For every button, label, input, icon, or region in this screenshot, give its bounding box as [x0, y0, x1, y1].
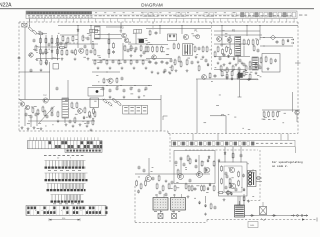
resistor R50 [226, 67, 228, 74]
diode D18 [250, 214, 254, 216]
record head H2 [171, 194, 186, 210]
choke box [53, 64, 59, 70]
junction [263, 37, 264, 38]
output arrows [291, 39, 294, 45]
wire [146, 58, 172, 60]
capacitor C3 [112, 50, 115, 54]
resistor R121 [82, 35, 84, 42]
junction [120, 85, 121, 86]
diode D7 [247, 78, 251, 80]
ground [138, 96, 141, 99]
resistor R103 [191, 185, 193, 192]
header right annotations [299, 14, 307, 17]
wire [240, 79, 256, 81]
speed block dashed bottom boundary [243, 200, 260, 202]
capacitor C65 [69, 120, 72, 124]
diode D9 [207, 159, 209, 163]
ground [175, 69, 178, 72]
junction [29, 25, 30, 26]
resistor R19 [94, 49, 96, 56]
diode D22 [231, 77, 233, 81]
wire drop to band 4 [287, 134, 289, 141]
wire [24, 27, 26, 100]
module boundary dashed vertical [211, 22, 213, 70]
wire [90, 26, 92, 45]
crystal filter [139, 39, 144, 43]
resistor R98 [156, 183, 158, 190]
wire [214, 56, 250, 58]
wire drop to band 2 [217, 134, 219, 141]
resistor R65 [116, 77, 118, 83]
resistor R10 [57, 48, 59, 55]
diode D14 [224, 151, 226, 155]
capacitor C40 [143, 169, 146, 173]
junction [263, 45, 264, 46]
resistor R24 [140, 45, 142, 52]
capacitor C36 [214, 74, 217, 78]
wire [239, 70, 241, 98]
capacitor C47 [226, 175, 229, 179]
corner wire [210, 114, 226, 133]
board outline right edge [297, 22, 299, 134]
ground [229, 62, 232, 65]
record head H1 [153, 194, 168, 210]
ground [217, 62, 220, 65]
ground [187, 195, 190, 198]
transistor TS10 [108, 78, 113, 83]
filter box [134, 29, 142, 33]
resistor R77 [84, 107, 86, 114]
resistor R83 [226, 73, 228, 80]
lower board bottom dashed edge right [207, 219, 317, 221]
capacitor C2 [90, 50, 93, 54]
diode D8 [195, 159, 197, 163]
junction with marker [18, 57, 20, 59]
diode D11 [207, 187, 209, 191]
resistor R8 [40, 48, 42, 55]
module boundary dashed left vertical [57, 43, 59, 62]
resistor R48 [255, 62, 257, 69]
resistor R17 [75, 49, 77, 56]
resistor R13 [72, 35, 74, 42]
capacitor C15 [249, 67, 252, 71]
wire [51, 35, 53, 60]
resistor R93 [201, 160, 203, 167]
wire drop to band 3 [280, 134, 282, 141]
strip drop wires [30, 137, 98, 140]
resistor R94 [213, 160, 215, 167]
resistor R52 [238, 67, 240, 74]
junction [181, 25, 182, 26]
connector J1 [22, 23, 27, 27]
head stack comb 2 [45, 173, 88, 181]
wire [29, 19, 31, 27]
lower board dashed vertical [169, 134, 171, 163]
resistor R7 [57, 37, 59, 44]
wire [92, 85, 152, 87]
resistor R105 [201, 185, 203, 192]
wire [260, 45, 293, 47]
resistor R25 [145, 46, 147, 53]
capacitor C1 [71, 50, 74, 54]
resistor R38 [186, 59, 188, 66]
resistor R59 [118, 59, 120, 65]
resistor R124 [198, 65, 200, 72]
arrow contact pair [291, 214, 308, 216]
transistor TS8 [227, 38, 232, 43]
capacitor C24 [102, 87, 105, 91]
capacitor C38 [183, 163, 186, 167]
wire [237, 196, 239, 205]
resistor R5 [45, 37, 47, 44]
connector strip CS1 lower cells [65, 149, 102, 153]
resistor R37 [180, 61, 182, 68]
wire [120, 22, 122, 33]
junction [106, 71, 107, 72]
ground [123, 96, 126, 99]
transistor TS7 [217, 37, 222, 42]
capacitor C6 [155, 31, 158, 35]
resistor R88 [263, 111, 265, 118]
resistor R62 [40, 59, 42, 65]
resistor R70 [32, 107, 34, 114]
resistor R123 [178, 56, 180, 63]
resistor R29 [147, 46, 149, 53]
lower board bottom end tick [316, 218, 318, 222]
resistor R44 [222, 48, 224, 55]
capacitor C25 [109, 89, 112, 93]
resistor R22 [108, 48, 110, 55]
resistor R16 [66, 49, 68, 56]
junction [233, 69, 234, 70]
ground [121, 67, 124, 70]
resistor R84 [231, 70, 233, 77]
resistor R73 [44, 110, 46, 117]
wire [214, 34, 262, 36]
capacitor C56 [143, 51, 146, 55]
transistor TS3 [122, 33, 127, 38]
module boundary dashed stub [152, 22, 154, 30]
wire [148, 158, 150, 175]
resistor R106 [213, 185, 215, 192]
G.B. label box [248, 222, 258, 228]
head stack comb 4 [51, 195, 84, 203]
resistor R110 [221, 178, 223, 185]
capacitor C54 [87, 37, 90, 41]
terminal band drop wires [30, 19, 295, 22]
resistor R134 [203, 185, 205, 192]
capacitor C46 [240, 154, 243, 158]
capacitor C62 [257, 49, 260, 53]
switch mark under wire [261, 219, 266, 221]
speed coil [248, 171, 257, 187]
resistor R67 [107, 101, 113, 107]
wire [37, 33, 47, 35]
ground [40, 69, 43, 72]
resistor R126 [214, 51, 216, 58]
wire [239, 196, 241, 205]
resistor R68 [112, 98, 118, 104]
annotation row [263, 118, 275, 121]
capacitor C52 [60, 42, 63, 46]
wire [181, 26, 183, 35]
diode D5 [227, 54, 229, 58]
wire [240, 147, 242, 163]
capacitor C37 [175, 161, 178, 165]
resistor R57 [94, 59, 96, 65]
ground [226, 76, 229, 79]
capacitor C49 [225, 186, 228, 190]
capacitor C66 [89, 115, 92, 119]
ground [90, 129, 93, 132]
wire [92, 59, 150, 61]
ground [109, 96, 112, 99]
resistor R32 [161, 46, 163, 53]
ground [241, 62, 244, 65]
wire [160, 95, 162, 131]
ground [204, 213, 207, 216]
wire [40, 35, 42, 60]
wire [229, 35, 231, 49]
wire [214, 69, 246, 71]
ground [197, 61, 200, 64]
ground [21, 126, 24, 129]
junction [259, 25, 260, 26]
resistor R112 [238, 180, 240, 187]
resistor R31 [156, 46, 158, 53]
wire [243, 194, 245, 205]
capacitor C73 [235, 188, 238, 192]
resistor R26 [149, 30, 151, 36]
resistor R20 [108, 38, 110, 45]
capacitor C41 [137, 190, 140, 194]
ground [65, 123, 68, 126]
switch unit S1 [123, 106, 148, 115]
resistor R3 [38, 33, 44, 35]
transformer T-IF2 [183, 44, 193, 56]
resistor R92 [189, 158, 191, 165]
resistor R55 [265, 56, 267, 63]
resistor R21 [113, 42, 115, 49]
resistor R131 [94, 111, 96, 118]
wire [232, 147, 234, 163]
diode D24 [209, 183, 211, 187]
wire [122, 43, 124, 60]
resistor R127 [253, 45, 255, 52]
resistor R40 [248, 39, 250, 46]
resistor R33 [194, 46, 196, 53]
capacitor C70 [180, 157, 183, 161]
transistor TS20 [229, 167, 234, 172]
resistor R49 [220, 65, 222, 72]
capacitor C67 [152, 177, 155, 181]
capacitor C17 [274, 59, 277, 63]
diode D16 [243, 188, 245, 192]
capacitor C19 [112, 60, 115, 64]
wire [262, 109, 300, 111]
ground [151, 71, 154, 74]
junction [246, 25, 247, 26]
resistor R6 [51, 37, 53, 44]
resistor R86 [243, 70, 245, 77]
capacitor C35 [87, 121, 90, 125]
resistor R119 [65, 42, 67, 49]
ground [133, 67, 136, 70]
capacitor C71 [195, 165, 198, 169]
resistor R1 [28, 26, 34, 32]
wire [77, 26, 79, 49]
capacitor C31 [25, 113, 28, 117]
wire [245, 215, 309, 217]
resistor R74 [57, 111, 59, 118]
wire [67, 80, 69, 98]
capacitor C23 [121, 77, 124, 81]
resistor R90 [272, 111, 274, 118]
wire [214, 30, 260, 32]
wire [98, 34, 121, 36]
wire [24, 108, 26, 126]
resistor R116 [218, 192, 224, 194]
ground [61, 57, 64, 60]
wire [92, 71, 120, 73]
capacitor C16 [276, 40, 279, 44]
terminal strip band [26, 11, 297, 19]
transistor TS14 [202, 75, 207, 80]
comb 4 labels [53, 202, 80, 205]
capacitor C68 [171, 181, 174, 185]
resistor R12 [67, 37, 69, 44]
wire [135, 33, 137, 44]
ground [165, 180, 168, 183]
component value annotations [20, 30, 298, 198]
diode D10 [218, 159, 220, 163]
resistor R114 [243, 196, 245, 202]
ground [86, 125, 89, 128]
corner bracket [163, 116, 168, 120]
capacitor C4 [135, 47, 138, 51]
resistor R47 [260, 57, 262, 64]
transformer T4 [62, 98, 69, 118]
wire end tick [238, 96, 242, 98]
capacitor C50 [33, 39, 36, 43]
motor M1 [235, 201, 245, 217]
resistor R34 [202, 46, 204, 53]
capacitor C14 [259, 66, 262, 70]
resistor R89 [268, 111, 270, 118]
svg-text:DIAGRAM: DIAGRAM [141, 2, 163, 7]
ground [247, 200, 250, 203]
resistor R136 [204, 167, 206, 174]
capacitor C58 [205, 59, 208, 63]
ground [169, 72, 172, 75]
capacitor C39 [138, 166, 141, 170]
capacitor C9 [161, 60, 164, 64]
capacitor C10 [166, 61, 169, 65]
capacitor C12 [191, 61, 194, 65]
capacitor C21 [136, 60, 139, 64]
resistor R35 [206, 46, 208, 53]
resistor R46 [230, 48, 232, 55]
resistor R54 [282, 39, 284, 46]
junction [106, 85, 107, 86]
lower terminal band [172, 140, 296, 146]
ground [202, 56, 205, 59]
transistor TS11 [20, 102, 24, 106]
resistor R87 [249, 73, 251, 80]
transistor TS9 [43, 98, 48, 103]
filter box [90, 29, 98, 32]
transistor TS13 [78, 109, 83, 114]
junction [90, 25, 91, 26]
resistor R125 [171, 65, 173, 72]
transistor TS5 [183, 34, 188, 39]
ground [195, 56, 198, 59]
transformer T3 [252, 57, 258, 70]
junction [159, 25, 160, 26]
ground [72, 125, 75, 128]
ground [45, 61, 48, 64]
capacitor C27 [123, 89, 126, 93]
bias oscillator box [174, 151, 215, 184]
resistor R39 [243, 39, 245, 46]
lower band dashed underline [185, 149, 258, 151]
wire [243, 46, 245, 56]
wire [45, 35, 47, 60]
wire [57, 35, 59, 60]
resistor R2 [32, 29, 38, 35]
speaker box [90, 98, 98, 108]
switch box [262, 54, 280, 73]
wire [214, 43, 248, 45]
resistor R75 [71, 102, 73, 109]
capacitor C42 [159, 191, 162, 195]
bias box [238, 73, 243, 78]
resistor R14 [59, 47, 66, 49]
wire [36, 58, 60, 60]
capacitor C8 [155, 61, 158, 65]
junction at right edge [295, 62, 301, 63]
speed regulator board [219, 162, 248, 196]
diode D15 [208, 155, 210, 159]
transistor TS2 [79, 48, 84, 53]
ground [134, 50, 137, 53]
junction [148, 85, 149, 86]
capacitor C64 [46, 115, 49, 119]
ground [140, 54, 143, 57]
wire [198, 155, 200, 174]
resistor R122 [124, 45, 126, 52]
wire [196, 79, 198, 134]
svg-text:G.B.: G.B. [250, 225, 255, 227]
ground [87, 57, 90, 60]
resistor R99 [162, 185, 164, 192]
resistor R61 [142, 59, 144, 65]
svg-text:For speedregulating: For speedregulating [272, 160, 303, 164]
capacitor C11 [198, 47, 201, 51]
capacitor C51 [48, 43, 51, 47]
resistor R107 [210, 203, 212, 210]
resistor R80 [92, 119, 94, 126]
wire [36, 116, 38, 126]
wire [128, 43, 148, 45]
wire [180, 158, 182, 177]
resistor R115 [229, 182, 231, 189]
ground [186, 69, 189, 72]
wire diagonal [38, 106, 55, 124]
wire [196, 78, 258, 80]
capacitor C43 [165, 193, 168, 197]
terminal band mid rule [92, 13, 240, 15]
